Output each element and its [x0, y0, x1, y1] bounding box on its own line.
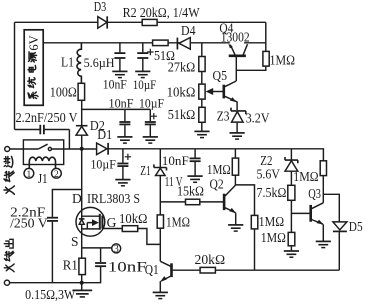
svg-text:6V: 6V — [27, 35, 41, 50]
resistor 1M ohm (top right) — [263, 51, 269, 66]
capacitor 10uF (first pair, polarized) — [142, 43, 144, 53]
svg-text:1MΩ: 1MΩ — [207, 162, 231, 177]
terminal (1) — [24, 168, 34, 178]
wire mid rail right segment — [244, 42, 266, 44]
svg-text:5.6V: 5.6V — [257, 166, 281, 181]
collector branch to 1M right — [235, 185, 254, 216]
svg-text:J1: J1 — [38, 171, 48, 186]
diode D3 — [98, 17, 107, 29]
ground — [188, 176, 203, 182]
svg-text:G: G — [107, 215, 117, 230]
2.2nF lower branch — [52, 190, 81, 217]
resistor chain 27k — [201, 43, 203, 57]
ground — [284, 251, 299, 257]
svg-text:Z1: Z1 — [140, 163, 151, 178]
svg-text:3: 3 — [114, 244, 119, 255]
svg-text:D: D — [72, 191, 82, 206]
capacitor 10nF (bottom) — [100, 248, 102, 262]
svg-text:1: 1 — [27, 170, 32, 180]
zener Z1 11V — [159, 149, 161, 167]
capacitor 10uF (second pair, polarized) — [149, 109, 151, 121]
svg-text:1MΩ: 1MΩ — [259, 214, 285, 229]
svg-text:IRL3803 S: IRL3803 S — [87, 191, 140, 206]
15k resistor to Q2 — [160, 201, 185, 203]
wire left rail — [14, 22, 16, 129]
svg-text:1MΩ: 1MΩ — [166, 215, 190, 230]
svg-text:Q2: Q2 — [210, 177, 224, 192]
terminal (2) — [52, 168, 62, 178]
svg-text:Z3: Z3 — [217, 109, 230, 124]
svg-text:100Ω: 100Ω — [50, 85, 77, 100]
svg-text:10nF: 10nF — [103, 76, 127, 91]
capacitor 10nF (first pair) — [119, 43, 121, 53]
resistor 51 ohm — [153, 40, 169, 46]
relay J1 box — [10, 148, 39, 150]
branch to D5 — [323, 194, 339, 221]
svg-text:1MΩ: 1MΩ — [293, 169, 318, 184]
wire mid rail from box — [43, 42, 230, 44]
svg-text:Q3: Q3 — [308, 186, 321, 201]
resistor 1M above Q2 — [234, 149, 236, 158]
ground — [115, 180, 130, 186]
resistor 10k gate — [122, 226, 137, 232]
svg-text:D4: D4 — [181, 23, 196, 38]
resistor 7.5k — [288, 185, 295, 200]
svg-text:10µF: 10µF — [133, 77, 157, 92]
terminal 火线出 — [4, 280, 9, 285]
ground — [153, 292, 168, 298]
resistor 100 ohm — [78, 83, 85, 100]
svg-text:1MΩ: 1MΩ — [270, 52, 296, 67]
node box 系统电源6V — [24, 30, 43, 106]
svg-text:15kΩ: 15kΩ — [177, 184, 204, 199]
ground — [112, 71, 127, 77]
switch blade — [38, 144, 47, 149]
svg-text:10nF: 10nF — [108, 259, 147, 275]
capacitor 10nF (second pair) — [82, 108, 151, 110]
ground — [194, 131, 209, 137]
svg-text:3.2V: 3.2V — [246, 111, 270, 126]
resistor 1M right column — [320, 161, 326, 176]
svg-text:D3: D3 — [94, 0, 107, 14]
svg-text:2: 2 — [54, 170, 59, 180]
resistor R2 — [142, 19, 157, 25]
resistor 1M (gate divider) — [157, 215, 163, 228]
source node wire + terminal (3) — [82, 247, 112, 249]
wire top rail — [15, 21, 266, 23]
relay coil — [29, 157, 55, 168]
svg-text:10µF: 10µF — [91, 157, 116, 172]
svg-text:/250 V: /250 V — [10, 215, 48, 230]
svg-text:13002: 13002 — [221, 30, 250, 45]
svg-text:10µF: 10µF — [139, 95, 164, 110]
svg-text:7.5kΩ: 7.5kΩ — [257, 185, 287, 200]
svg-text:S: S — [71, 234, 79, 249]
svg-text:D5: D5 — [349, 219, 363, 234]
ground — [117, 137, 132, 143]
ground — [316, 241, 331, 247]
ground — [72, 290, 92, 297]
svg-text:27kΩ: 27kΩ — [168, 59, 196, 74]
svg-text:D1: D1 — [97, 127, 112, 142]
resistor R1 0.15 ohm — [79, 258, 86, 274]
wire right vertical — [265, 22, 267, 51]
inductor L1 5.6uH — [77, 43, 81, 84]
svg-text:1MΩ: 1MΩ — [261, 230, 286, 245]
svg-text:10nF: 10nF — [109, 95, 134, 110]
diode D5 — [333, 222, 347, 230]
diode D4 — [179, 38, 190, 50]
node dot main rail — [80, 147, 84, 151]
ground — [135, 71, 150, 77]
svg-text:10nF: 10nF — [162, 153, 189, 168]
ground — [230, 133, 245, 139]
ground — [143, 137, 158, 143]
svg-text:R1: R1 — [63, 258, 78, 273]
svg-text:20kΩ: 20kΩ — [195, 252, 226, 267]
wire live rail — [108, 149, 323, 161]
capacitor 10uF (third, polarized) — [122, 149, 124, 163]
diode D1 — [97, 143, 107, 155]
svg-text:L1: L1 — [61, 55, 74, 70]
terminal 火线进 — [5, 147, 10, 152]
svg-text:51kΩ: 51kΩ — [168, 107, 196, 122]
svg-text:Q5: Q5 — [213, 68, 228, 83]
svg-text:2.2nF/250 V: 2.2nF/250 V — [16, 110, 78, 125]
diode D2 — [81, 100, 83, 125]
base wire + resistor 20k — [173, 269, 201, 271]
resistor 10k potentiometer — [199, 84, 205, 99]
resistor 51k — [199, 107, 205, 122]
svg-text:5.6µH: 5.6µH — [84, 55, 115, 70]
svg-text:Q1: Q1 — [145, 262, 159, 277]
svg-text:R2 20kΩ, 1/4W: R2 20kΩ, 1/4W — [123, 5, 200, 20]
svg-text:10kΩ: 10kΩ — [119, 211, 148, 226]
resistor 1M bottom — [288, 232, 295, 245]
svg-text:10kΩ: 10kΩ — [167, 84, 196, 99]
ground — [228, 225, 243, 231]
svg-text:0.15Ω,3W: 0.15Ω,3W — [25, 287, 76, 302]
zener Z3 3.2V — [231, 108, 246, 115]
